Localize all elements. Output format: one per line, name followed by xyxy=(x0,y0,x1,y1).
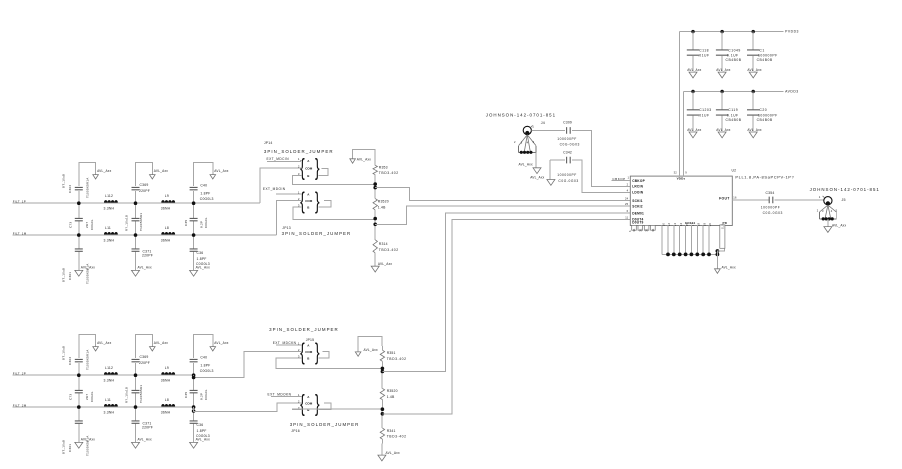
wire node B to U2 pin 25 xyxy=(375,206,630,224)
wire JP16 pin3 to divider node xyxy=(293,408,383,410)
svg-text:220PF: 220PF xyxy=(142,425,153,429)
svg-text:8.2P: 8.2P xyxy=(200,221,204,228)
junction dots stage1 xyxy=(77,201,81,205)
svg-text:AVL_Axx: AVL_Axx xyxy=(530,176,544,180)
svg-text:C1: C1 xyxy=(759,48,764,52)
svg-text:R?_10u1B: R?_10u1B xyxy=(125,387,129,403)
svg-text:U2: U2 xyxy=(732,168,737,172)
wire JP15 pin3 to divider node xyxy=(276,358,383,368)
svg-text:3.3NH: 3.3NH xyxy=(104,207,115,211)
capacitor C119 xyxy=(720,90,723,93)
svg-text:BT_10uB: BT_10uB xyxy=(62,440,66,454)
svg-text:L112: L112 xyxy=(105,194,113,198)
svg-text:T1005X5R1A: T1005X5R1A xyxy=(86,177,90,198)
jumper JP15 braces xyxy=(300,340,305,365)
svg-text:100000PF: 100000PF xyxy=(761,206,781,210)
wire FILT_2P line xyxy=(13,374,194,376)
svg-text:C342: C342 xyxy=(563,150,572,154)
capacitor C bot stage3 xyxy=(193,235,195,249)
U2 bottom right pin box xyxy=(720,225,725,248)
svg-text:0.1UF: 0.1UF xyxy=(727,53,739,57)
svg-text:{: { xyxy=(300,392,305,417)
capacitor C top stage1 xyxy=(78,191,80,203)
svg-text:AVL_Axx: AVL_Axx xyxy=(716,128,730,132)
svg-text:}: } xyxy=(315,340,320,365)
ground divider top xyxy=(350,159,356,163)
svg-text:JP16: JP16 xyxy=(291,429,300,433)
junction dots stage3 xyxy=(192,201,196,205)
svg-text:C0G-0G03: C0G-0G03 xyxy=(558,179,578,183)
ground stage2 bottom (ch2) xyxy=(132,442,140,448)
svg-text:R314: R314 xyxy=(379,242,388,246)
wire node A2 to U2 pin 6 xyxy=(382,213,629,372)
svg-text:C361: C361 xyxy=(68,444,72,452)
svg-text:JP15: JP15 xyxy=(306,338,315,342)
ground stage2 bottom xyxy=(132,270,140,276)
jumper JP13 braces xyxy=(300,189,305,214)
svg-text:C361: C361 xyxy=(68,272,72,280)
wire FILT_2M line xyxy=(13,406,194,408)
ground stage3 bottom xyxy=(190,270,198,276)
svg-text:{: { xyxy=(300,189,305,214)
ground J4 shield xyxy=(533,168,541,174)
svg-text:JP13: JP13 xyxy=(282,226,291,230)
svg-text:T1005X5R1A: T1005X5R1A xyxy=(86,435,90,456)
svg-text:.01UF: .01UF xyxy=(698,113,710,117)
svg-text:LRCIN: LRCIN xyxy=(632,185,643,189)
svg-text:C0G0L3: C0G0L3 xyxy=(200,197,214,201)
svg-text:C309: C309 xyxy=(563,121,572,125)
ground C342 xyxy=(547,180,555,186)
capacitor C bot stage3 (ch2) xyxy=(193,407,195,421)
svg-text:C364: C364 xyxy=(68,185,72,193)
svg-text:AVL_Axx: AVL_Axx xyxy=(378,262,392,266)
wire U2 pin16 FOUT xyxy=(732,199,769,201)
svg-text:BT_10uB: BT_10uB xyxy=(62,174,66,188)
svg-text:100000PF: 100000PF xyxy=(557,137,577,141)
capacitor C top stage3 (ch2) xyxy=(193,363,195,375)
svg-text:S_0: S_0 xyxy=(722,224,725,229)
wire node A to U2 pin 24 xyxy=(375,188,630,201)
svg-text:L112: L112 xyxy=(105,366,113,370)
connector J5 shield pins xyxy=(820,205,828,212)
svg-text:CB4B0B: CB4B0B xyxy=(726,118,742,122)
svg-text:CB4B0B: CB4B0B xyxy=(757,118,773,122)
svg-text:C369: C369 xyxy=(140,183,149,187)
svg-text:FOUT: FOUT xyxy=(719,197,730,201)
svg-text:LDOIN: LDOIN xyxy=(632,191,644,195)
svg-text:C0G0L: C0G0L xyxy=(204,389,208,400)
wire C342 left to ground xyxy=(549,160,551,179)
svg-text:T1005X5R1: T1005X5R1 xyxy=(139,385,143,403)
svg-text:C0G-0G03: C0G-0G03 xyxy=(763,211,783,215)
wire R3520 to node B2 xyxy=(381,400,384,429)
svg-text:AVL_Axx: AVL_Axx xyxy=(716,68,730,72)
svg-text:2R7: 2R7 xyxy=(85,222,89,228)
svg-text:C119: C119 xyxy=(728,108,738,112)
resistor R3520 (ch2) xyxy=(380,388,384,399)
wire R314 to ground xyxy=(374,253,376,266)
svg-text:L8: L8 xyxy=(165,226,169,230)
svg-text:.01UF: .01UF xyxy=(698,53,710,57)
svg-text:AVL_Axx: AVL_Axx xyxy=(747,68,761,72)
wire divider2 top gnd loop xyxy=(358,337,382,352)
connector J5 SMA xyxy=(824,197,832,205)
capacitor C20 xyxy=(752,90,755,93)
wire JP16 right loop xyxy=(319,403,331,410)
ground divider bottom xyxy=(371,266,379,272)
svg-text:3PIN_SOLDER_JUMPER: 3PIN_SOLDER_JUMPER xyxy=(269,327,339,332)
svg-text:1: 1 xyxy=(532,125,534,129)
wire JP14 pin2 to FILT_1P xyxy=(260,168,302,203)
svg-text:C73: C73 xyxy=(69,394,73,400)
svg-text:AVL_Axx: AVL_Axx xyxy=(687,68,701,72)
svg-text:31: 31 xyxy=(645,228,649,232)
svg-text:AVL_Axx: AVL_Axx xyxy=(364,348,378,352)
capacitor C1049 xyxy=(720,30,723,33)
svg-text:0.1UF: 0.1UF xyxy=(727,113,739,117)
svg-text:L8: L8 xyxy=(165,398,169,402)
svg-text:1.8PF: 1.8PF xyxy=(200,364,210,368)
wire U2 pin9 to AVDD rail xyxy=(682,92,684,177)
svg-text:T1005X5R1A: T1005X5R1A xyxy=(86,349,90,370)
wire gnd bus xyxy=(662,254,717,256)
svg-text:J5: J5 xyxy=(842,198,846,202)
svg-text:EXT_MDCKN: EXT_MDCKN xyxy=(273,341,297,345)
capacitor C mid stage3 xyxy=(193,203,195,218)
svg-text:C369: C369 xyxy=(140,355,149,359)
svg-text:AVL_Axx: AVL_Axx xyxy=(154,169,168,173)
svg-text:C364: C364 xyxy=(68,357,72,365)
junction dots stage1 (ch2) xyxy=(77,373,81,377)
svg-text:J4: J4 xyxy=(541,121,545,125)
IC U2 body xyxy=(630,176,732,225)
svg-text:1.8PF: 1.8PF xyxy=(197,257,207,261)
wire JP14 pin3 to divider node xyxy=(292,176,375,185)
svg-text:25: 25 xyxy=(625,202,629,206)
svg-text:L9: L9 xyxy=(165,194,169,198)
svg-text:R353: R353 xyxy=(379,166,388,170)
U2 pin 1 stub CBKOP xyxy=(612,180,630,182)
capacitor C top stage1 (ch2) xyxy=(78,363,80,375)
node B2 junction dots xyxy=(381,407,385,411)
svg-text:AVL_Axx: AVL_Axx xyxy=(154,341,168,345)
ground stage2 top xyxy=(150,175,156,179)
ground stage1 top (ch2) xyxy=(93,347,99,351)
svg-text:220PF: 220PF xyxy=(142,253,153,257)
svg-text:36NH: 36NH xyxy=(161,411,171,415)
capacitor C mid stage1 (ch2) xyxy=(78,375,80,390)
svg-text:VDDs: VDDs xyxy=(677,177,686,181)
svg-text:AVL_Axx: AVL_Axx xyxy=(386,451,400,455)
resistor R3520 xyxy=(373,199,377,210)
svg-text:AVL_Axx: AVL_Axx xyxy=(138,438,152,442)
svg-text:3PIN_SOLDER_JUMPER: 3PIN_SOLDER_JUMPER xyxy=(290,422,360,427)
svg-text:1: 1 xyxy=(819,195,821,199)
svg-text:3PIN_SOLDER_JUMPER: 3PIN_SOLDER_JUMPER xyxy=(282,231,352,236)
ground stage2 top (ch2) xyxy=(150,347,156,351)
svg-text:24: 24 xyxy=(625,197,629,201)
U2 bottom pin wires to gnd bus xyxy=(661,225,663,255)
svg-text:R351: R351 xyxy=(387,351,396,355)
svg-text:C36: C36 xyxy=(197,251,204,255)
capacitor C mid stage3 (ch2) xyxy=(193,375,195,390)
svg-text:}: } xyxy=(315,392,320,417)
svg-text:BT_10uB: BT_10uB xyxy=(62,346,66,360)
svg-text:SCKI1: SCKI1 xyxy=(632,199,643,203)
wire J4 to C309 xyxy=(532,129,566,131)
svg-text:AVL_Axx: AVL_Axx xyxy=(357,157,371,161)
svg-text:100000PF: 100000PF xyxy=(758,53,778,57)
svg-text:L11: L11 xyxy=(105,398,111,402)
wire AVDD rail xyxy=(683,91,783,93)
wire PVDD rail xyxy=(679,31,783,33)
wire JP13 pin2 to FILT_1M xyxy=(276,201,302,236)
wire R351 to node A2 xyxy=(381,361,384,388)
svg-text:C0G0L: C0G0L xyxy=(90,219,94,230)
connector J4 shield pins xyxy=(519,135,528,146)
resistor R353 xyxy=(373,165,377,174)
svg-text:C1203: C1203 xyxy=(699,108,712,112)
svg-text:AVL_Axx: AVL_Axx xyxy=(519,163,533,167)
svg-text:{: { xyxy=(300,340,305,365)
resistor R351 xyxy=(380,350,384,361)
svg-text:C1049: C1049 xyxy=(728,48,741,52)
svg-text:BT_10uB: BT_10uB xyxy=(62,268,66,282)
wire R353 to node A xyxy=(374,175,376,199)
svg-text:R3520: R3520 xyxy=(378,200,389,204)
svg-text:C73: C73 xyxy=(69,222,73,228)
svg-text:C36: C36 xyxy=(197,423,204,427)
svg-text:JOHNSON-142-0701-851: JOHNSON-142-0701-851 xyxy=(810,187,880,192)
svg-text:AVL_Axx: AVL_Axx xyxy=(747,128,761,132)
svg-text:220PF: 220PF xyxy=(139,361,150,365)
wire U2 pin23 to gnd bus xyxy=(717,248,724,254)
node A junction dots xyxy=(373,182,377,186)
capacitor C mid stage2 (ch2) xyxy=(135,375,137,390)
svg-text:EXT_MDOKN: EXT_MDOKN xyxy=(268,393,292,397)
svg-text:3.3NH: 3.3NH xyxy=(104,411,115,415)
wire C342 to U2 pin 4 xyxy=(572,160,630,192)
svg-text:TBD3-402: TBD3-402 xyxy=(379,248,399,252)
svg-text:R341: R341 xyxy=(387,429,396,433)
svg-text:TBD3-402: TBD3-402 xyxy=(387,357,407,361)
ground stage3 bottom (ch2) xyxy=(190,442,198,448)
svg-text:1.4B: 1.4B xyxy=(387,395,395,399)
svg-text:AVL_Axx: AVL_Axx xyxy=(832,223,846,227)
svg-text:32: 32 xyxy=(674,170,678,174)
wire JP13 pin3 to divider node xyxy=(293,207,375,220)
svg-text:L11: L11 xyxy=(105,226,111,230)
capacitor C1 xyxy=(752,30,755,33)
capacitor C354 xyxy=(769,197,773,204)
svg-text:SCKI2: SCKI2 xyxy=(632,204,643,208)
svg-text:AVL_Axx: AVL_Axx xyxy=(97,341,111,345)
capacitor C mid stage1 xyxy=(78,203,80,218)
svg-text:220PF: 220PF xyxy=(139,189,150,193)
svg-text:D0UT9: D0UT9 xyxy=(632,221,643,225)
svg-text:CB4B0B: CB4B0B xyxy=(726,58,742,62)
svg-text:COM: COM xyxy=(305,167,313,171)
U2 bottom NC boxes xyxy=(632,225,637,230)
capacitor C bot stage1 xyxy=(78,235,80,249)
svg-text:C35: C35 xyxy=(184,220,188,226)
ground stage1 bottom xyxy=(75,270,83,276)
svg-text:11: 11 xyxy=(625,216,628,220)
svg-text:3PIN_SOLDER_JUMPER: 3PIN_SOLDER_JUMPER xyxy=(264,149,334,154)
svg-text:C0G-0G03: C0G-0G03 xyxy=(560,142,580,146)
junction dots FILT_2 taps xyxy=(192,376,196,380)
svg-text:C40: C40 xyxy=(200,355,207,359)
svg-text:100000PF: 100000PF xyxy=(758,113,778,117)
wire JP13 right loop xyxy=(319,201,331,208)
capacitor C top stage2 (ch2) xyxy=(135,363,137,375)
wire R341 to ground xyxy=(381,439,384,455)
capacitor C118 xyxy=(691,30,694,33)
svg-text:31: 31 xyxy=(638,228,642,232)
wire JP15 pin2 to FILT_2P xyxy=(194,352,302,378)
svg-text:DEM01: DEM01 xyxy=(632,211,644,215)
ground stage1 top xyxy=(93,175,99,179)
svg-text:AVL_Axx: AVL_Axx xyxy=(214,169,228,173)
wire C354 to J5 xyxy=(775,199,824,201)
svg-text:COM: COM xyxy=(305,402,313,406)
resistor R314 xyxy=(373,240,377,253)
node A2 junction dots xyxy=(381,367,385,371)
svg-text:31: 31 xyxy=(632,228,636,232)
capacitor C bot stage2 (ch2) xyxy=(135,407,137,421)
wire FILT_1P line xyxy=(13,202,260,204)
svg-text:16: 16 xyxy=(733,196,737,200)
svg-text:CB4B0B: CB4B0B xyxy=(757,58,773,62)
svg-text:C20: C20 xyxy=(759,108,767,112)
connector J4 SMA xyxy=(523,126,531,134)
wire R3520 to node B xyxy=(374,210,376,240)
junction dots stage2 xyxy=(134,201,138,205)
gnd bus junction dots xyxy=(666,253,670,257)
wire U2 pin32 to PVDD rail xyxy=(678,32,680,177)
svg-text:1.8PF: 1.8PF xyxy=(200,192,210,196)
svg-text:AVL_Axx: AVL_Axx xyxy=(214,341,228,345)
wire gnd bus tail xyxy=(716,255,718,269)
svg-text:31: 31 xyxy=(651,228,655,232)
svg-text:R?_10u1B: R?_10u1B xyxy=(125,215,129,231)
svg-text:8.2P: 8.2P xyxy=(200,393,204,400)
ground divider2 top xyxy=(355,352,361,356)
ground divider2 bottom xyxy=(378,455,386,461)
capacitor C1203 xyxy=(691,90,694,93)
svg-text:JOHNSON-142-0701-851: JOHNSON-142-0701-851 xyxy=(486,112,556,117)
wire J5 shield to ground xyxy=(827,219,829,227)
wire J4 shield to ground xyxy=(535,152,537,168)
svg-text:EXT_MDOIN: EXT_MDOIN xyxy=(263,187,286,191)
svg-text:}: } xyxy=(315,189,320,214)
svg-text:COM: COM xyxy=(305,199,313,203)
svg-text:C40: C40 xyxy=(200,183,207,187)
wire divider top gnd loop xyxy=(353,150,376,166)
svg-text:TBD3-402: TBD3-402 xyxy=(387,435,407,439)
svg-text:R3520: R3520 xyxy=(387,389,398,393)
ground stage3 top xyxy=(210,175,216,179)
svg-text:C0G0L: C0G0L xyxy=(90,391,94,402)
svg-text:C118: C118 xyxy=(699,48,709,52)
capacitor C top stage3 xyxy=(193,191,195,203)
ground stage3 top (ch2) xyxy=(210,347,216,351)
svg-text:1.8PF: 1.8PF xyxy=(197,429,207,433)
node B junction dots xyxy=(373,217,377,221)
capacitor C bot stage2 xyxy=(135,235,137,249)
svg-text:}: } xyxy=(315,156,320,181)
svg-text:AVDD3: AVDD3 xyxy=(785,90,799,94)
svg-text:L9: L9 xyxy=(165,366,169,370)
ground stage1 bottom (ch2) xyxy=(75,442,83,448)
junction dots stage3 (ch2) xyxy=(192,373,196,377)
svg-text:TBD3-402: TBD3-402 xyxy=(379,171,399,175)
jumper JP14 braces xyxy=(300,156,305,181)
svg-text:36NH: 36NH xyxy=(161,207,171,211)
svg-text:2R7: 2R7 xyxy=(85,394,89,400)
capacitor C309 xyxy=(567,127,571,134)
svg-text:C35: C35 xyxy=(184,392,188,398)
wire JP16 pin2 to FILT_2M xyxy=(194,403,302,412)
wire C309 to U2 pin 2 xyxy=(572,130,630,186)
svg-text:T1005X5R1A: T1005X5R1A xyxy=(86,263,90,284)
capacitor C bot stage1 (ch2) xyxy=(78,407,80,421)
wire FILT_1M line xyxy=(13,234,277,236)
resistor R341 xyxy=(380,428,384,439)
svg-text:36NH: 36NH xyxy=(161,379,171,383)
svg-text:AVL_Axx: AVL_Axx xyxy=(687,128,701,132)
svg-text:100000PF: 100000PF xyxy=(557,173,577,177)
svg-text:AVL_Axx: AVL_Axx xyxy=(138,266,152,270)
svg-text:EXT_MDCIN: EXT_MDCIN xyxy=(267,157,290,161)
ground J5 shield xyxy=(824,227,832,233)
ground U2 bus xyxy=(715,269,721,274)
wire JP15 right loop xyxy=(319,352,329,359)
svg-text:AVL_Axx: AVL_Axx xyxy=(722,265,736,269)
junction dots stage2 (ch2) xyxy=(134,373,138,377)
capacitor C mid stage2 xyxy=(135,203,137,218)
svg-text:1.4B: 1.4B xyxy=(378,206,386,210)
capacitor C top stage2 xyxy=(135,191,137,203)
svg-text:T1005X5R1: T1005X5R1 xyxy=(139,213,143,231)
jumper JP16 braces xyxy=(300,392,305,417)
wire JP14 right loop xyxy=(319,169,328,176)
svg-text:AVL_Axx: AVL_Axx xyxy=(97,169,111,173)
svg-text:C0G0L3: C0G0L3 xyxy=(196,262,210,266)
svg-text:C354: C354 xyxy=(766,191,775,195)
svg-text:CBKOP: CBKOP xyxy=(612,177,625,181)
svg-text:PVDD3: PVDD3 xyxy=(785,30,799,34)
wire node B2 to U2 pin 11 xyxy=(382,219,629,413)
capacitor C342 xyxy=(550,159,565,161)
svg-text:C0G0L3: C0G0L3 xyxy=(200,369,214,373)
svg-text:C0G0L3: C0G0L3 xyxy=(196,434,210,438)
svg-text:CBKOP: CBKOP xyxy=(632,179,645,183)
svg-text:PLL1.8,PA-8SaPCPV-1P?: PLL1.8,PA-8SaPCPV-1P? xyxy=(735,174,794,179)
svg-text:36NH: 36NH xyxy=(161,239,171,243)
svg-text:3.3NH: 3.3NH xyxy=(104,379,115,383)
svg-text:3.3NH: 3.3NH xyxy=(104,239,115,243)
svg-text:COM: COM xyxy=(305,350,313,354)
svg-text:C0G0L: C0G0L xyxy=(204,217,208,228)
svg-text:JP14: JP14 xyxy=(264,141,273,145)
